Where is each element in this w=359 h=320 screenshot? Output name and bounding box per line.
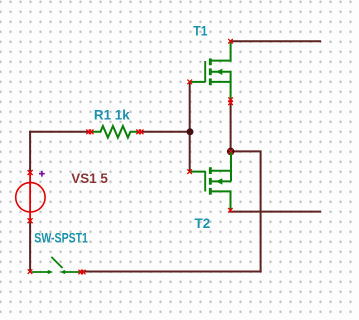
switch right contact with arrow [60, 270, 80, 274]
T2 body wire [212, 180, 232, 182]
T2 gate terminal X [187, 169, 192, 174]
voltage source VS1 circle [16, 174, 45, 221]
switch left terminal X [28, 269, 33, 274]
T2 drain bar [209, 167, 212, 174]
svg-text:T1: T1 [193, 22, 207, 38]
T1 drain wire [212, 42, 231, 61]
VS1 plus polarity mark [39, 171, 45, 177]
T1 body bar [209, 68, 212, 75]
T1 drain terminal X [228, 39, 233, 44]
T1 gate lead [190, 81, 205, 83]
svg-text:SW-SPST1: SW-SPST1 [34, 229, 88, 245]
T2 source terminal X [228, 208, 233, 213]
svg-text:R1 1k: R1 1k [94, 107, 130, 123]
wire resistor to junction node A [141, 131, 190, 133]
T2 body bar [209, 178, 212, 185]
switch right terminal X [78, 270, 85, 275]
wire top horizontal from left corner to resistor [30, 131, 89, 133]
svg-text:VS1 5: VS1 5 [71, 170, 108, 186]
T1 gate terminal X [187, 80, 192, 85]
T2 source wire [212, 191, 231, 209]
T1 drain bar [209, 58, 212, 65]
T2 source bar [209, 188, 212, 195]
svg-text:T2: T2 [195, 215, 211, 231]
switch lever [51, 257, 62, 268]
VS1 top terminal X [28, 170, 33, 175]
T2 gate bar [204, 171, 206, 192]
wire top rail [231, 40, 321, 42]
T1 body arrow [216, 69, 222, 75]
transistor T2 (MOSFET) [190, 153, 231, 210]
T1 gate bar [204, 61, 206, 82]
T2 body arrow [216, 178, 222, 184]
transistor T1 (MOSFET) [190, 42, 231, 100]
T2 gate lead [190, 171, 206, 173]
T1 body wire [212, 72, 231, 101]
T2 drain wire from junction [212, 153, 232, 182]
resistor R1 left terminal X [86, 130, 93, 135]
wire gate bus vertical T1 gate to T2 gate [189, 82, 191, 172]
wire left vertical corner to VS1 top [29, 132, 31, 173]
wire bottom rail to switch [82, 271, 261, 273]
T1 source terminal X [228, 97, 233, 105]
wire T1 source down to junction node B [230, 101, 232, 152]
wire left vertical VS1 bottom to switch corner [29, 221, 31, 272]
wire mid rail [230, 211, 320, 213]
T1 source bar [209, 78, 212, 85]
VS1 bottom terminal X [28, 218, 33, 223]
node B junction dot [227, 148, 235, 156]
wire junction B to right corner and down [231, 151, 261, 271]
resistor R1 zigzag [91, 126, 138, 138]
resistor R1 right terminal X [136, 130, 143, 135]
switch SW-SPST1 left contact with arrow [31, 270, 53, 274]
T1 source wire [212, 81, 231, 83]
node A junction dot [187, 128, 194, 135]
